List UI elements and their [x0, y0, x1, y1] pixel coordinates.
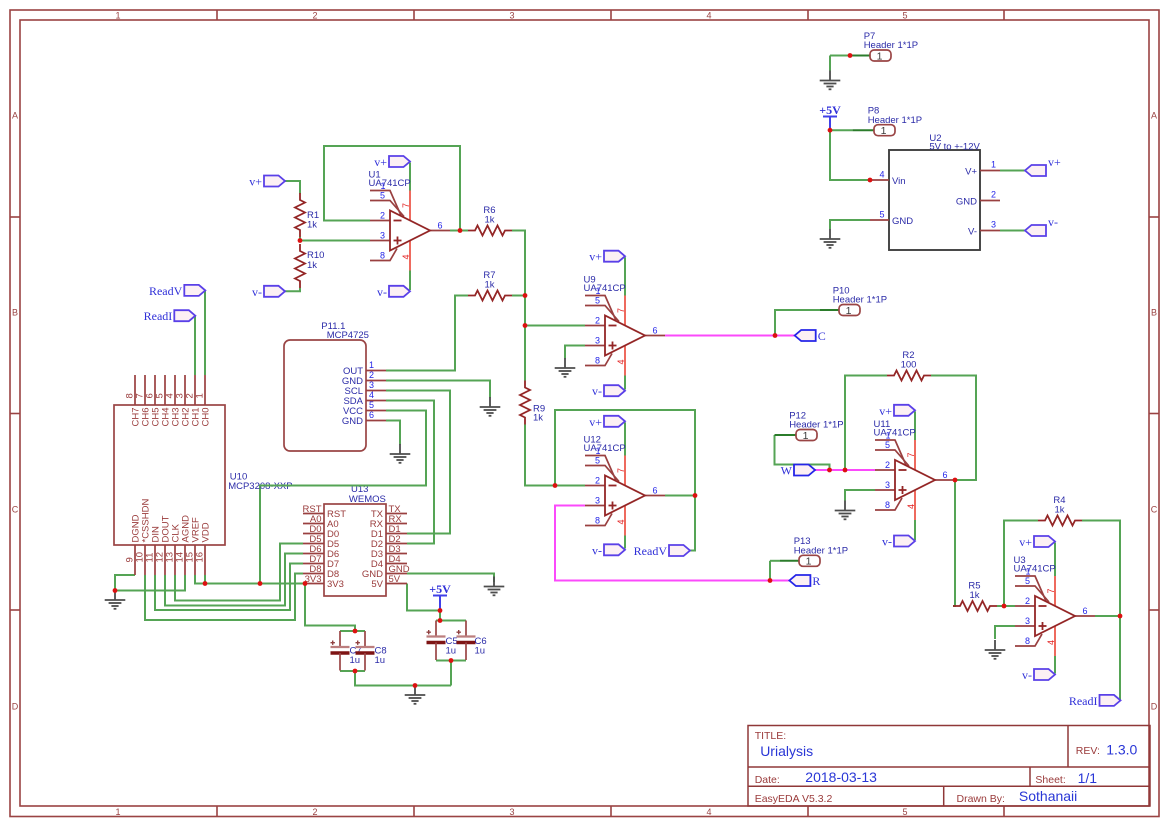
net flag ReadV (left) — [149, 284, 205, 298]
junction — [303, 581, 308, 586]
svg-text:5: 5 — [902, 11, 907, 21]
wire — [1000, 170, 1025, 172]
svg-text:v-: v- — [882, 535, 892, 549]
svg-text:2: 2 — [369, 370, 374, 380]
wire — [386, 391, 450, 534]
wire net W (magenta) — [815, 469, 875, 471]
wire — [775, 310, 820, 336]
svg-text:Date:: Date: — [755, 774, 780, 786]
wire — [624, 422, 626, 455]
svg-text:2: 2 — [312, 11, 317, 21]
junction — [553, 483, 558, 488]
junction — [458, 228, 463, 233]
wire — [386, 421, 400, 445]
op-amp U9 (UA741CP) — [584, 275, 666, 376]
svg-text:5: 5 — [369, 400, 374, 410]
ground (U10 DGND/AGND) — [105, 590, 126, 609]
wire — [931, 376, 976, 481]
wire — [407, 574, 494, 583]
svg-text:v-: v- — [592, 384, 602, 398]
wire — [830, 220, 870, 229]
header P12 (Header 1*1P) — [789, 410, 843, 442]
net flag v- (U11) — [882, 535, 915, 549]
P7 pin stub — [850, 55, 870, 57]
net flag v+ (U11) — [879, 404, 915, 418]
resistor R4 1k — [1038, 495, 1082, 526]
wire — [914, 411, 916, 440]
svg-text:100: 100 — [901, 360, 917, 371]
wire — [450, 230, 468, 232]
capacitor C5 1u — [427, 621, 458, 661]
svg-text:V+: V+ — [965, 167, 977, 178]
svg-text:Header 1*1P: Header 1*1P — [789, 420, 843, 431]
wire — [997, 605, 1015, 607]
P10 pin stub — [820, 309, 839, 311]
svg-text:UA741CP: UA741CP — [369, 178, 411, 189]
svg-text:ReadV: ReadV — [634, 544, 668, 558]
wire — [565, 346, 585, 359]
header P13 (Header 1*1P) — [794, 536, 848, 568]
svg-text:C: C — [818, 329, 826, 343]
wire — [195, 575, 205, 584]
wire — [830, 129, 853, 131]
wire — [624, 536, 626, 549]
wire — [285, 288, 300, 291]
ground (P11 GND2) — [480, 397, 501, 416]
svg-text:4: 4 — [879, 170, 884, 180]
junction — [953, 478, 958, 483]
P13 pin stub — [780, 560, 799, 562]
resistor R1 1k — [295, 193, 319, 237]
junction — [523, 293, 528, 298]
junction — [203, 581, 208, 586]
wire — [386, 296, 468, 371]
wire (VCC overdraw) — [260, 485, 426, 487]
wire — [829, 56, 831, 71]
capacitor C7 1u — [331, 631, 362, 671]
svg-text:1k: 1k — [307, 260, 317, 271]
MCU module U13 (WEMOS) — [303, 484, 410, 596]
capacitor C6 1u — [457, 621, 487, 661]
junction — [413, 683, 418, 688]
svg-text:VDD: VDD — [201, 522, 212, 542]
wire — [409, 163, 411, 191]
wire — [525, 325, 585, 327]
wire — [1119, 616, 1121, 700]
wire — [1082, 521, 1120, 617]
wire — [1054, 543, 1056, 577]
junction — [828, 128, 833, 133]
svg-text:R: R — [812, 574, 820, 588]
svg-text:3: 3 — [369, 380, 374, 390]
svg-text:1k: 1k — [484, 280, 494, 291]
svg-text:Header 1*1P: Header 1*1P — [833, 295, 887, 306]
svg-text:1k: 1k — [1054, 505, 1064, 516]
svg-text:1k: 1k — [307, 220, 317, 231]
svg-text:A: A — [1151, 111, 1157, 121]
junction — [827, 468, 832, 473]
junction — [848, 53, 853, 58]
svg-text:W: W — [781, 464, 793, 478]
svg-text:Sheet:: Sheet: — [1035, 774, 1065, 786]
power flag +5V (P8) — [819, 103, 841, 131]
DC converter U2 (5V to +-12V) — [870, 133, 1000, 250]
svg-text:5V: 5V — [371, 579, 383, 590]
net flag ReadI (U3 out) — [1069, 694, 1121, 708]
svg-text:ReadI: ReadI — [144, 309, 173, 323]
junction — [868, 178, 873, 183]
svg-text:v+: v+ — [589, 415, 602, 429]
wire — [115, 575, 135, 591]
resistor R7 1k — [468, 270, 512, 301]
svg-text:Header 1*1P: Header 1*1P — [868, 115, 922, 126]
capacitor C8 1u — [356, 631, 387, 671]
wire — [690, 496, 695, 551]
wire — [436, 620, 466, 622]
header P10 (Header 1*1P) — [833, 285, 887, 317]
wire — [340, 670, 365, 672]
svg-text:3V3: 3V3 — [327, 579, 344, 590]
svg-text:4: 4 — [706, 807, 711, 817]
junction — [353, 629, 358, 634]
svg-text:v-: v- — [1048, 215, 1058, 229]
wire — [260, 411, 426, 584]
junction — [438, 608, 443, 613]
svg-text:Drawn By:: Drawn By: — [957, 793, 1005, 805]
wire — [285, 181, 300, 194]
ground (U2 GND) — [820, 229, 841, 248]
resistor R6 1k — [468, 205, 512, 236]
resistor R5 1k — [953, 581, 997, 612]
wire — [155, 564, 303, 611]
wire — [165, 554, 303, 606]
wire — [845, 376, 887, 471]
svg-text:Header 1*1P: Header 1*1P — [864, 40, 918, 51]
wire — [439, 611, 441, 621]
svg-text:UA741CP: UA741CP — [1014, 564, 1056, 575]
wire — [512, 231, 525, 381]
svg-text:1: 1 — [115, 807, 120, 817]
ground (U3 pin3) — [985, 640, 1006, 659]
net flag v+ (U12) — [589, 415, 625, 429]
wire — [340, 630, 365, 632]
svg-text:ReadV: ReadV — [149, 284, 183, 298]
wire — [624, 257, 626, 295]
svg-text:TITLE:: TITLE: — [755, 730, 787, 742]
wire net C (magenta) — [665, 335, 795, 337]
net flag v+ (U9) — [589, 250, 625, 264]
svg-text:1k: 1k — [969, 590, 979, 601]
wire — [1004, 521, 1038, 607]
net flag ReadV (U12 out) — [634, 544, 690, 558]
svg-text:v-: v- — [377, 285, 387, 299]
wire — [1054, 656, 1056, 674]
wire — [205, 583, 303, 585]
wire — [769, 561, 771, 581]
svg-text:1u: 1u — [446, 646, 457, 657]
svg-text:v+: v+ — [374, 155, 387, 169]
svg-text:CH0: CH0 — [201, 408, 212, 427]
wire — [409, 271, 411, 291]
svg-text:GND: GND — [342, 416, 363, 427]
svg-text:A: A — [12, 111, 18, 121]
svg-text:v+: v+ — [1048, 155, 1061, 169]
wire — [555, 410, 695, 496]
wire — [1000, 230, 1025, 232]
net flag C — [795, 329, 826, 343]
wire — [175, 544, 303, 601]
svg-text:GND: GND — [892, 216, 913, 227]
svg-text:EasyEDA V5.3.2: EasyEDA V5.3.2 — [755, 793, 833, 805]
svg-text:5V to +-12V: 5V to +-12V — [929, 142, 980, 153]
ground (U11 pin3) — [835, 501, 856, 520]
ground (P7) — [820, 71, 841, 90]
junction — [258, 581, 263, 586]
svg-text:1: 1 — [369, 360, 374, 370]
net flag v- (R10) — [252, 285, 285, 299]
resistor R10 1k — [295, 244, 324, 288]
svg-text:B: B — [1151, 308, 1157, 318]
svg-text:Vin: Vin — [892, 176, 906, 187]
svg-text:1: 1 — [115, 11, 120, 21]
junction — [843, 468, 848, 473]
svg-text:v+: v+ — [589, 250, 602, 264]
wire — [450, 661, 452, 686]
svg-text:1.3.0: 1.3.0 — [1106, 742, 1137, 758]
op-amp U11 (UA741CP) — [874, 419, 956, 520]
net flag v- (U12) — [592, 543, 625, 557]
net flag v- (U3) — [1022, 668, 1055, 682]
P12 pin stub — [775, 434, 797, 436]
ADC U10 (MCP3208-XXP) — [114, 375, 293, 575]
svg-text:v-: v- — [1022, 668, 1032, 682]
ground (caps rail) — [405, 685, 426, 704]
net flag v+ (U2) — [1025, 155, 1061, 176]
svg-text:2018-03-13: 2018-03-13 — [805, 769, 877, 785]
svg-text:1/1: 1/1 — [1078, 770, 1098, 786]
op-amp U1 (UA741CP) — [369, 170, 451, 271]
wire — [324, 146, 460, 231]
svg-text:v+: v+ — [249, 175, 262, 189]
svg-text:16: 16 — [195, 552, 206, 563]
svg-text:REV:: REV: — [1076, 745, 1100, 757]
svg-text:Urialysis: Urialysis — [760, 743, 813, 759]
wire — [830, 55, 850, 57]
op-amp U12 (UA741CP) — [584, 435, 666, 536]
net flag v+ (R1) — [249, 175, 285, 189]
wire — [665, 495, 695, 497]
net flag R — [789, 574, 820, 588]
resistor R2 100 — [887, 350, 931, 381]
svg-text:v+: v+ — [1019, 535, 1032, 549]
wire — [953, 480, 955, 606]
junction — [523, 323, 528, 328]
svg-text:UA741CP: UA741CP — [584, 443, 626, 454]
svg-text:1u: 1u — [375, 655, 386, 666]
wire — [525, 425, 585, 486]
svg-text:1: 1 — [195, 393, 206, 398]
svg-text:1: 1 — [991, 160, 996, 170]
net flag v+ (U3) — [1019, 535, 1055, 549]
svg-text:5: 5 — [879, 210, 884, 220]
wire — [407, 584, 440, 611]
wire — [305, 584, 355, 632]
wire — [624, 376, 626, 390]
wire — [512, 295, 525, 297]
net flag ReadI (left) — [144, 309, 196, 323]
ground (U9 pin3) — [555, 358, 576, 377]
svg-text:MCP4725: MCP4725 — [327, 330, 369, 341]
svg-text:5V: 5V — [389, 574, 401, 585]
junction — [298, 238, 303, 243]
wire — [995, 626, 1015, 639]
svg-text:4: 4 — [369, 390, 374, 400]
svg-text:UA741CP: UA741CP — [584, 283, 626, 294]
svg-text:ReadI: ReadI — [1069, 694, 1098, 708]
wire — [300, 237, 370, 241]
ground (P11 GND6) — [390, 444, 411, 463]
svg-text:1u: 1u — [350, 655, 361, 666]
svg-text:3: 3 — [991, 220, 996, 230]
wire — [194, 316, 196, 375]
svg-text:v-: v- — [592, 543, 602, 557]
svg-text:1k: 1k — [484, 215, 494, 226]
wire — [845, 490, 875, 501]
svg-text:Sothanaii: Sothanaii — [1019, 788, 1077, 804]
svg-text:4: 4 — [706, 11, 711, 21]
junction — [773, 333, 778, 338]
wire — [145, 574, 303, 621]
svg-text:1u: 1u — [475, 646, 486, 657]
svg-text:v+: v+ — [879, 404, 892, 418]
wire — [204, 575, 206, 584]
wire — [355, 671, 451, 686]
wire — [770, 560, 780, 562]
wire — [914, 520, 916, 540]
ground (WEMOS GND) — [484, 577, 505, 596]
svg-text:GND: GND — [956, 197, 977, 208]
junction — [693, 493, 698, 498]
svg-text:B: B — [12, 308, 18, 318]
wire — [775, 435, 830, 470]
net flag v- (U2) — [1025, 215, 1058, 236]
junction — [353, 669, 358, 674]
net flag v+ (U1) — [374, 155, 410, 169]
net flag W — [781, 464, 815, 478]
net flag v- (U1) — [377, 285, 410, 299]
svg-text:5: 5 — [902, 807, 907, 817]
svg-text:2: 2 — [312, 807, 317, 817]
wire net R (magenta) — [555, 506, 789, 581]
junction — [449, 658, 454, 663]
net flag v- (U9) — [592, 384, 625, 398]
wire — [204, 291, 206, 375]
junction — [113, 588, 118, 593]
svg-text:WEMOS: WEMOS — [349, 494, 386, 505]
wire — [436, 660, 466, 662]
junction — [1002, 604, 1007, 609]
svg-text:D: D — [1151, 702, 1158, 712]
title block — [748, 726, 1150, 807]
header P8 (Header 1*1P) — [868, 106, 922, 138]
svg-text:UA741CP: UA741CP — [874, 428, 916, 439]
svg-text:C: C — [1151, 505, 1158, 515]
DAC module P11.1 (MCP4725) — [284, 321, 386, 451]
wire — [830, 128, 870, 180]
svg-text:3: 3 — [509, 11, 514, 21]
P8 pin stub — [853, 129, 874, 131]
svg-text:C: C — [12, 505, 19, 515]
wire — [386, 401, 434, 544]
svg-text:3: 3 — [509, 807, 514, 817]
svg-text:1k: 1k — [533, 413, 543, 424]
svg-text:v-: v- — [252, 285, 262, 299]
op-amp U3 (UA741CP) — [1014, 555, 1096, 656]
wire — [386, 381, 490, 398]
junction — [438, 618, 443, 623]
junction — [1118, 614, 1123, 619]
svg-text:D: D — [12, 702, 19, 712]
svg-text:Header 1*1P: Header 1*1P — [794, 545, 848, 556]
header P7 (Header 1*1P) — [864, 31, 918, 63]
svg-text:6: 6 — [369, 410, 374, 420]
junction — [768, 578, 773, 583]
wire — [115, 575, 185, 591]
resistor R9 1k — [520, 381, 545, 425]
svg-text:2: 2 — [991, 190, 996, 200]
power flag +5V (5V rail) — [429, 582, 451, 610]
svg-text:V-: V- — [968, 227, 977, 238]
